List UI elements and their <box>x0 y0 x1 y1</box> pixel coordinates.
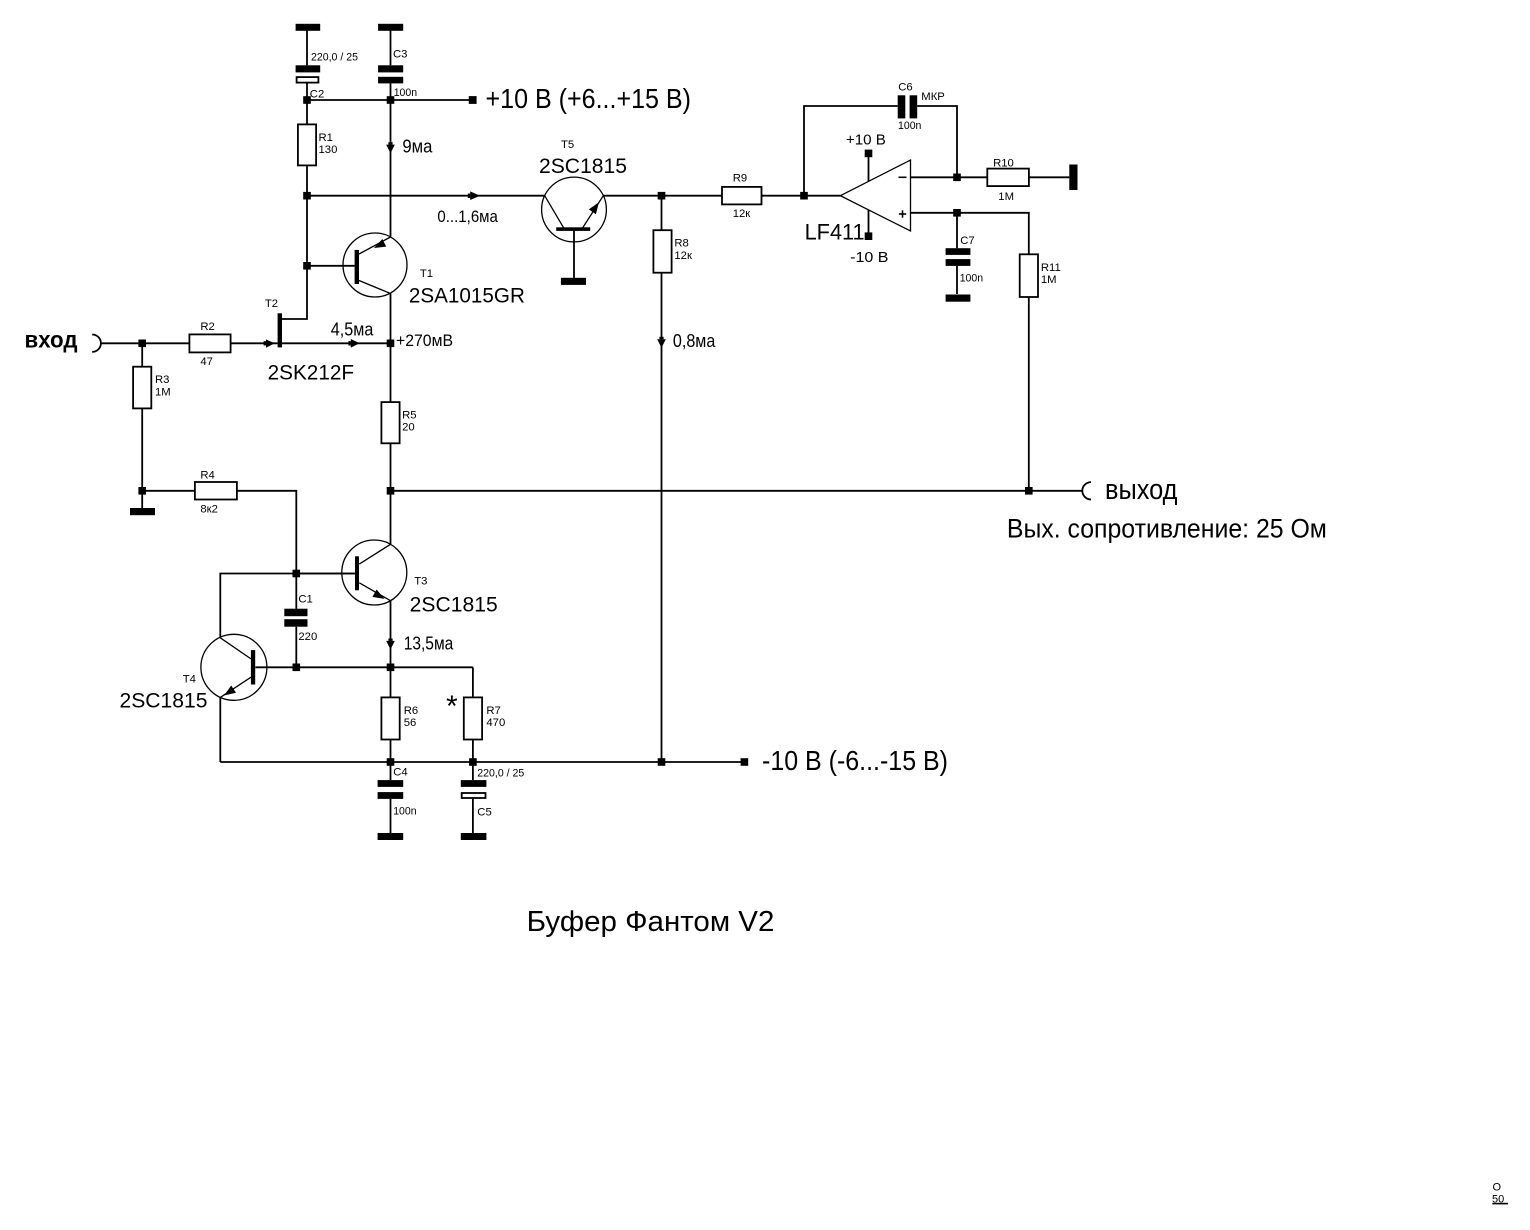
svg-text:C7: C7 <box>960 235 974 247</box>
node R1 / signal line <box>303 192 311 200</box>
resistor R11 1M <box>1020 254 1061 297</box>
wire R1 bottom to T2 drain corner <box>282 165 307 319</box>
svg-text:2SA1015GR: 2SA1015GR <box>409 285 525 308</box>
svg-text:R4: R4 <box>200 469 214 481</box>
node T4 base line / C1 bottom <box>293 664 301 672</box>
svg-text:R1: R1 <box>319 132 333 144</box>
transistor T3 2SC1815 <box>296 540 497 617</box>
node +10V rail end <box>469 96 477 104</box>
transistor T4 2SC1815 <box>120 634 297 712</box>
svg-text:Буфер Фантом V2: Буфер Фантом V2 <box>527 906 775 938</box>
svg-text:2SK212F: 2SK212F <box>268 361 355 384</box>
wire R6 bottom to rail <box>390 740 392 781</box>
node +10V rail at C3 <box>387 96 395 104</box>
wire C4 to ground <box>390 799 392 833</box>
wire node to R5 <box>390 343 392 402</box>
wire R8 bottom to rail <box>661 273 663 762</box>
current arrow 0...1,6ма <box>470 191 480 200</box>
wire R8 line top <box>661 196 663 231</box>
wire R9 to op-amp output <box>762 195 841 197</box>
node T1 base <box>303 262 311 270</box>
svg-text:8к2: 8к2 <box>200 504 218 516</box>
svg-text:C3: C3 <box>393 48 407 60</box>
svg-text:100n: 100n <box>393 806 416 818</box>
op-amp -10V stub <box>850 210 888 266</box>
node rail at C4 <box>387 758 395 766</box>
wire R7 bottom to rail <box>472 740 474 781</box>
node rail at R8 <box>658 758 666 766</box>
wire R7 top <box>472 667 474 697</box>
svg-text:C1: C1 <box>298 594 312 606</box>
gate arrow T2 <box>266 340 275 348</box>
svg-text:2SC1815: 2SC1815 <box>120 690 208 713</box>
svg-text:1M: 1M <box>998 191 1014 203</box>
wire C6 to inverting input <box>917 106 957 177</box>
current arrow 0,8ма <box>657 339 666 348</box>
svg-text:R10: R10 <box>993 158 1014 170</box>
svg-text:вход: вход <box>25 326 78 352</box>
wire C7 to ground <box>956 266 958 294</box>
svg-text:R8: R8 <box>674 238 688 250</box>
wire T1 collector to node <box>390 294 392 344</box>
wire C3 to +10V rail <box>390 83 392 100</box>
svg-text:220: 220 <box>298 631 317 643</box>
wire non-inverting input <box>911 213 1029 255</box>
svg-text:C5: C5 <box>477 807 491 819</box>
transistor T2 2SK212F JFET <box>265 298 354 385</box>
svg-text:T1: T1 <box>420 268 433 280</box>
resistor R3 1M <box>133 367 171 409</box>
svg-text:C2: C2 <box>310 89 324 101</box>
svg-text:100n: 100n <box>394 87 417 99</box>
svg-text:12к: 12к <box>733 208 751 220</box>
svg-text:100n: 100n <box>898 120 921 132</box>
node feedback junction <box>800 192 808 200</box>
capacitor C6 100n MKP <box>898 82 945 132</box>
ground below C5 <box>461 833 487 840</box>
node +270mV <box>387 340 395 348</box>
wire R3 bottom to ground junction <box>141 408 143 508</box>
svg-text:R5: R5 <box>402 410 416 422</box>
corner mark <box>1492 1182 1508 1206</box>
capacitor C4 100n <box>378 767 417 818</box>
wire R10 to terminal <box>1029 176 1069 178</box>
wire T4 base line to R6/R7 <box>296 666 473 668</box>
capacitor C7 100n <box>946 235 984 285</box>
svg-text:470: 470 <box>486 717 505 729</box>
wire -10V rail <box>220 761 744 763</box>
svg-text:2SC1815: 2SC1815 <box>410 594 498 617</box>
wire T5 emitter to R9 <box>603 195 722 197</box>
wire C5 to ground <box>472 799 474 833</box>
current arrow 4,5ма <box>351 339 360 348</box>
input connector <box>92 335 101 352</box>
wire ground to C2 <box>306 30 308 65</box>
wire C2 to +10V rail <box>306 83 308 100</box>
svg-text:выход: выход <box>1105 474 1178 506</box>
wire T2 source to node <box>282 342 391 344</box>
wire inverting input <box>911 176 988 178</box>
ground below C7 <box>946 295 971 302</box>
wire R2 to T2 gate <box>231 342 278 344</box>
wire R3 top <box>141 343 143 366</box>
wire R6 top <box>390 667 392 697</box>
resistor R10 1M <box>987 158 1029 203</box>
wire output line <box>391 490 1083 492</box>
svg-text:C4: C4 <box>393 767 407 779</box>
ground below R3 <box>130 508 155 515</box>
resistor R4 8к2 <box>195 469 237 515</box>
current arrow 9ma <box>386 145 395 154</box>
ground below C4 <box>378 833 404 840</box>
node output line at R11 <box>1025 487 1033 495</box>
svg-text:1M: 1M <box>1041 274 1057 286</box>
wire R4 to T3 base line <box>237 491 296 609</box>
svg-text:Вых. сопротивление: 25 Ом: Вых. сопротивление: 25 Ом <box>1007 514 1327 544</box>
current arrow 13,5ма <box>386 641 395 650</box>
node input junction <box>138 340 146 348</box>
svg-text:220,0 / 25: 220,0 / 25 <box>311 52 358 64</box>
node output line at R5 <box>387 487 395 495</box>
svg-text:20: 20 <box>402 422 415 434</box>
svg-text:130: 130 <box>319 144 338 156</box>
svg-text:R7: R7 <box>486 705 500 717</box>
wire T3 emitter down <box>390 601 392 668</box>
op-amp U1 LF411 <box>805 160 911 245</box>
svg-text:47: 47 <box>200 356 213 368</box>
ground above C3 <box>378 24 403 31</box>
wire feedback loop <box>804 106 898 196</box>
node T3 emitter / R6 <box>387 664 395 672</box>
svg-text:9ма: 9ма <box>402 137 433 157</box>
svg-text:МКР: МКР <box>921 91 945 103</box>
resistor R1 130 <box>298 124 337 165</box>
svg-text:1M: 1M <box>155 386 171 398</box>
svg-text:220,0 / 25: 220,0 / 25 <box>477 768 524 780</box>
svg-text:+10 В (+6...+15 В): +10 В (+6...+15 В) <box>486 83 692 114</box>
node inverting input <box>953 174 961 182</box>
wire junction to R4 <box>142 490 195 492</box>
svg-text:R2: R2 <box>200 321 214 333</box>
svg-text:-10 В (-6...-15 В): -10 В (-6...-15 В) <box>762 745 948 776</box>
wire + input to C7 <box>956 213 958 248</box>
svg-text:+10 В: +10 В <box>846 133 886 149</box>
wire R5 to output node <box>390 443 392 544</box>
transistor T5 2SC1815 <box>539 139 627 242</box>
wire T4 collector line <box>220 574 354 638</box>
wire T4 emitter down to rail <box>219 697 221 762</box>
capacitor C2 220,0/25 electrolytic <box>296 52 358 101</box>
svg-text:T5: T5 <box>561 139 574 151</box>
wire R11 to output line <box>1028 297 1030 491</box>
node R3/R4 junction <box>138 487 146 495</box>
wire C1 bottom to T4 base line <box>295 627 297 668</box>
svg-text:4,5ма: 4,5ма <box>331 320 374 340</box>
node non-inverting input <box>953 209 961 217</box>
transistor T1 2SA1015GR <box>307 233 525 308</box>
resistor R5 20 <box>381 402 416 443</box>
svg-text:0...1,6ма: 0...1,6ма <box>437 207 498 226</box>
svg-text:2SC1815: 2SC1815 <box>539 155 627 178</box>
capacitor C1 220 <box>284 594 317 644</box>
op-amp +10V stub <box>846 133 886 182</box>
resistor R6 56 <box>381 697 418 739</box>
wire T5 base to ground <box>573 231 575 278</box>
svg-text:LF411: LF411 <box>805 220 865 245</box>
node R8 top <box>658 192 666 200</box>
resistor R2 47 <box>189 321 230 368</box>
wire R1 top <box>306 100 308 124</box>
resistor R8 12к <box>653 230 692 273</box>
svg-text:C6: C6 <box>898 82 912 94</box>
resistor R9 12к <box>722 173 762 221</box>
svg-text:R6: R6 <box>404 705 418 717</box>
svg-text:0,8ма: 0,8ма <box>673 331 716 351</box>
svg-text:R11: R11 <box>1041 262 1061 274</box>
resistor R7 470 <box>446 690 505 740</box>
node rail at C5 <box>469 758 477 766</box>
terminal bar right of R10 <box>1069 165 1077 191</box>
svg-text:T3: T3 <box>414 576 427 588</box>
ground above C2 <box>296 24 321 31</box>
ground below T5 <box>561 278 586 285</box>
capacitor C3 100n <box>378 48 417 99</box>
wire signal line to T5 <box>307 195 545 197</box>
svg-text:О: О <box>1493 1182 1502 1194</box>
node T3 base line / C1 top <box>293 570 301 578</box>
svg-text:*: * <box>446 690 458 723</box>
svg-text:-10 В: -10 В <box>850 250 888 266</box>
svg-text:56: 56 <box>404 717 417 729</box>
svg-text:100n: 100n <box>960 273 983 285</box>
output connector <box>1082 482 1091 499</box>
svg-text:+270мВ: +270мВ <box>396 331 453 350</box>
node rail end <box>741 758 749 766</box>
svg-text:T2: T2 <box>265 298 278 310</box>
svg-text:T4: T4 <box>183 673 196 685</box>
wire 9ma current path <box>390 100 392 237</box>
wire +10V rail <box>307 99 473 101</box>
wire input to junction <box>101 342 189 344</box>
svg-text:13,5ма: 13,5ма <box>404 633 454 653</box>
svg-text:R9: R9 <box>733 173 747 185</box>
capacitor C5 220,0/25 electrolytic <box>461 768 525 819</box>
node +10V rail at C2 <box>303 96 311 104</box>
svg-text:12к: 12к <box>674 250 692 262</box>
wire ground to C3 <box>390 30 392 65</box>
svg-text:R3: R3 <box>155 374 169 386</box>
